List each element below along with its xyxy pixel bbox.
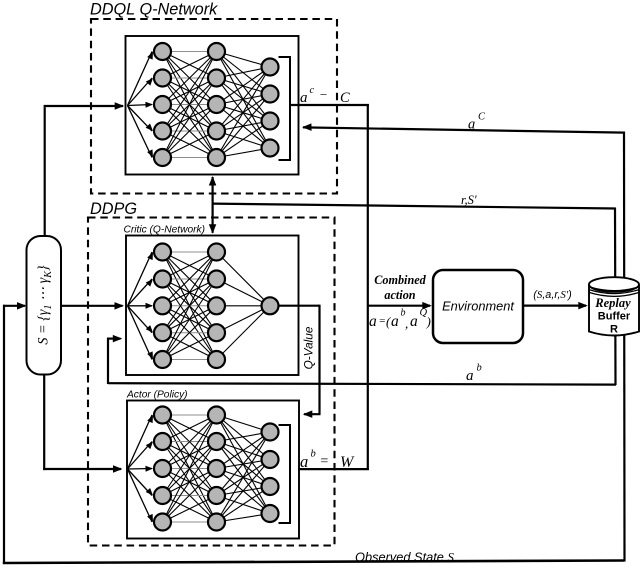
wire: DDQL output a-super-Q horizontal [290,104,369,106]
node: state vector S box [27,236,62,375]
wire: DDQL network input fan lines [128,52,154,158]
wire: Actor network hidden-to-output mesh connections [217,415,271,522]
wire: bidirectional arrow between DDQL and Critic (r,S' distribution) [209,176,217,234]
wire: Environment to Replay Buffer arrow [523,302,588,310]
node: Actor network input layer neurons [154,407,171,531]
wire: DDQL network hidden-to-output mesh connections [217,52,271,158]
wire: Actor network input-to-hidden mesh connections [163,415,217,522]
wire: combined action vertical trunk [367,104,369,470]
wire: Critic network input-to-hidden mesh connections [163,252,217,360]
box: Critic network network frame [126,236,299,376]
node: DDQL network output layer neurons [262,59,279,157]
node: Critic network hidden layer neurons [208,244,225,369]
svg-text:r,S′: r,S′ [461,193,477,207]
wire: state S to Critic input [61,302,124,310]
wire: state S to DDQL input (vertical then horizontal) [44,102,125,236]
svg-text:Q-Value: Q-Value [302,326,316,369]
bracket: Actor network output selector [279,425,291,523]
box: Actor network network frame [127,401,299,539]
node: Replay Buffer R cylinder [589,277,639,335]
bracket: DDQL network output selector [279,57,291,160]
wire: observed state feedback left vertical into S box [3,302,27,564]
wire: Actor output a-super-b = W horizontal [298,468,369,470]
wire: Critic network input fan lines [128,252,154,360]
node: Actor network output layer neurons [262,424,279,523]
svg-text:R: R [610,324,618,336]
wire: Actor network input fan lines [128,415,154,522]
svg-text:Environment: Environment [442,299,514,314]
svg-text:Buffer: Buffer [598,311,631,323]
svg-text:Combined: Combined [374,273,426,287]
svg-text:Critic (Q-Network): Critic (Q-Network) [124,225,206,236]
svg-text:action: action [384,288,415,302]
node: DDQL network input layer neurons [154,43,171,166]
node: Critic network input layer neurons [154,244,171,369]
wire: Observed State S bottom horizontal [3,561,625,564]
wire: DDQL network input-to-hidden mesh connections [163,52,217,158]
wire: state S to Actor input (vertical then horizontal) [43,374,122,473]
box: DDPG dashed container [88,218,335,546]
box: DDQL Q-Network dashed container [91,19,337,194]
svg-text:Replay: Replay [594,296,631,310]
wire: a^C from Replay Buffer to DDQL (right vertical + arrow left) [302,123,625,561]
svg-text:Observed State S: Observed State S [355,550,454,565]
wire: r,S' from Replay Buffer to networks (right vertical) [213,204,616,385]
node: DDQL network hidden layer neurons [208,43,225,166]
svg-text:Actor (Policy): Actor (Policy) [126,390,188,401]
svg-text:DDQL Q-Network: DDQL Q-Network [90,1,218,19]
box: Environment [433,270,523,343]
wire: a^b from Replay Buffer to Critic action input [107,335,616,385]
wire: Q-Value from Critic output to Actor [278,305,321,418]
wire: combined action arrow into Environment [367,302,432,310]
node: Actor network hidden layer neurons [208,407,225,531]
wire: Critic network hidden-to-output mesh connections [217,252,271,360]
box: DDQL network network frame [126,36,299,175]
svg-text:DDPG: DDPG [90,200,137,218]
svg-text:(S,a,r,S′): (S,a,r,S′) [533,289,571,301]
node: Critic network output layer neurons [262,297,279,314]
